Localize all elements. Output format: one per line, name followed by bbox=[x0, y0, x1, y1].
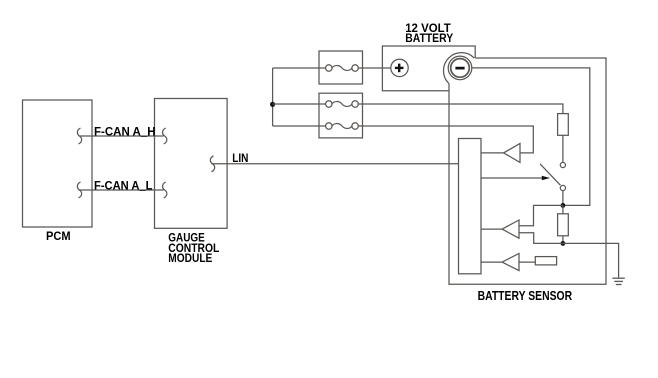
resistor R2 bbox=[558, 214, 569, 236]
wire bus to fuse 2a bbox=[273, 103, 326, 105]
svg-text:F-CAN A_H: F-CAN A_H bbox=[94, 125, 156, 139]
switch S1 blade bbox=[540, 164, 560, 185]
switch S1 upper contact bbox=[560, 162, 565, 167]
junction dot on bus bbox=[270, 102, 275, 107]
wire amp U3 to shunt bbox=[519, 261, 535, 263]
wire fuse 1 to battery positive bbox=[358, 67, 391, 69]
ground bbox=[612, 278, 624, 284]
fuse 2b bbox=[326, 123, 359, 129]
wire F-CAN A_L bbox=[79, 189, 164, 191]
switch S1 lower contact bbox=[560, 185, 565, 190]
PCM module box bbox=[23, 100, 93, 227]
junction dot B bbox=[561, 241, 566, 246]
wire IC to amp U3 bbox=[481, 261, 502, 263]
wire IC to amp U2 bbox=[481, 228, 502, 230]
wire F-CAN A_H bbox=[79, 135, 164, 137]
vertical bus wire bbox=[272, 68, 274, 126]
switch actuator arrow from IC bbox=[481, 176, 550, 181]
wire R2 to junction B bbox=[562, 236, 564, 244]
battery sensor box bbox=[449, 58, 606, 284]
wire junction A to amp U2 upper input bbox=[519, 205, 563, 225]
resistor R1 bbox=[558, 114, 569, 136]
svg-text:BATTERY: BATTERY bbox=[405, 31, 453, 45]
battery positive terminal bbox=[391, 59, 408, 76]
battery negative terminal bbox=[443, 53, 474, 84]
label 12 VOLT BATTERY bbox=[405, 21, 453, 45]
shunt element bbox=[535, 257, 556, 265]
wire LIN bbox=[212, 163, 459, 165]
svg-text:PCM: PCM bbox=[46, 229, 71, 243]
connector at gauge pin A_H bbox=[163, 128, 167, 144]
wire IC to amp U1 bbox=[481, 152, 504, 154]
sensor IC block bbox=[459, 139, 482, 274]
connector at PCM pin A_H bbox=[77, 128, 81, 144]
svg-text:MODULE: MODULE bbox=[168, 251, 212, 265]
wire lower contact to junction bbox=[562, 191, 564, 206]
fuse box 1 bbox=[319, 51, 363, 84]
amplifier U1 bbox=[504, 143, 520, 162]
gauge control module box bbox=[155, 99, 228, 229]
wire junction A to resistor R2 bbox=[562, 205, 564, 213]
svg-text:BATTERY SENSOR: BATTERY SENSOR bbox=[478, 289, 572, 303]
amplifier U3 bbox=[502, 254, 519, 271]
fuse 2a bbox=[326, 101, 359, 107]
connector at gauge pin A_L bbox=[163, 182, 167, 198]
svg-text:LIN: LIN bbox=[232, 151, 248, 165]
wire fuse 2b to amp U1 output bbox=[358, 126, 533, 153]
junction dot A bbox=[561, 203, 566, 208]
amplifier U2 bbox=[502, 220, 519, 238]
svg-text:F-CAN A_L: F-CAN A_L bbox=[94, 179, 153, 193]
wire junction B to ground bbox=[563, 243, 619, 277]
battery box bbox=[382, 46, 475, 91]
wire bus to fuse 2b bbox=[273, 125, 326, 127]
wire R1 to switch contact bbox=[562, 135, 564, 162]
wire amp U2 lower output to junction B bbox=[519, 233, 563, 244]
wire negative terminal to switch net bbox=[472, 68, 590, 206]
wire bus to fuse 1 bbox=[273, 67, 326, 69]
connector at PCM pin A_L bbox=[77, 182, 81, 198]
fuse box 2 bbox=[319, 93, 363, 138]
label GAUGE CONTROL MODULE bbox=[168, 231, 219, 266]
connector at gauge pin LIN bbox=[210, 156, 214, 172]
fuse 1 bbox=[326, 65, 359, 71]
wire fuse 2a to resistor R1 bbox=[358, 104, 563, 114]
